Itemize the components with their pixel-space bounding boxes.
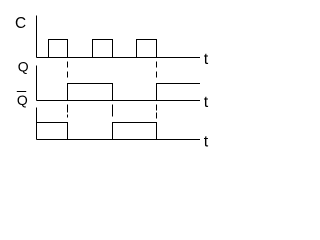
Q high pulse 2	[157, 84, 201, 101]
C pulse 1	[49, 40, 68, 58]
svg-text:C: C	[15, 15, 26, 32]
dashed line Q to Qbar at x=112.5	[112, 105, 114, 121]
svg-text:t: t	[204, 94, 209, 111]
dashed line C to Q at x=156.5	[156, 62, 158, 79]
Q high pulse 1	[68, 84, 113, 101]
Q axis vertical	[36, 66, 38, 101]
C pulse 2	[93, 40, 113, 58]
label Qbar overline	[17, 91, 26, 93]
C axis vertical	[36, 16, 38, 58]
dashed line Q to Qbar at x=67.5	[67, 105, 69, 121]
svg-text:Q: Q	[18, 59, 29, 75]
Q time axis (baseline)	[37, 100, 201, 102]
dashed line C to Q at x=67.5	[67, 62, 69, 79]
dashed line Q to Qbar at x=156.5	[156, 105, 158, 121]
Qbar high pulse 1	[37, 123, 68, 140]
svg-text:Q: Q	[17, 92, 28, 108]
svg-text:t: t	[204, 134, 209, 151]
C pulse 3	[137, 40, 157, 58]
Qbar high pulse 2	[113, 123, 157, 140]
svg-text:t: t	[204, 51, 209, 68]
Qbar axis vertical	[36, 108, 38, 140]
Qbar time axis (baseline)	[37, 139, 201, 141]
C time axis (baseline)	[37, 57, 201, 59]
